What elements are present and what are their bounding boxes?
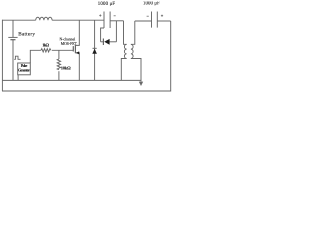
svg-text:Battery: Battery [18,32,35,38]
svg-text:1000 μF: 1000 μF [143,2,160,7]
svg-text:1kΩ: 1kΩ [42,42,49,47]
svg-text:10kΩ: 10kΩ [61,65,71,70]
svg-text:Generator: Generator [18,69,30,73]
svg-text:N-channel: N-channel [60,37,76,41]
svg-text:MOS-FET: MOS-FET [61,42,78,46]
svg-text:Pulse: Pulse [21,64,28,68]
svg-text:1000 μF: 1000 μF [98,2,116,7]
